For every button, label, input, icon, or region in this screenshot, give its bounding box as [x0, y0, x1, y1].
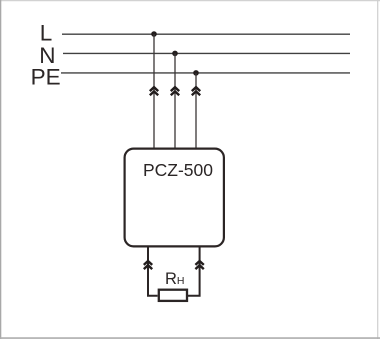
svg-text:PCZ-500: PCZ-500	[143, 160, 213, 180]
svg-text:PE: PE	[31, 64, 61, 89]
wire PE line	[61, 72, 350, 74]
wire box to resistor right	[188, 247, 200, 296]
frame border	[0, 0, 380, 2]
wire PE to box	[195, 73, 197, 148]
junction dot on L	[151, 31, 157, 37]
svg-text:L: L	[40, 20, 53, 45]
wire N to box	[174, 53, 176, 148]
wire L line	[62, 33, 350, 35]
wire box to resistor left	[148, 247, 158, 296]
arrow chevrons on N wire	[171, 87, 179, 95]
relay box PCZ-500	[125, 149, 224, 247]
arrow chevrons on L wire	[150, 87, 158, 95]
junction dot on PE	[193, 70, 199, 76]
arrow chevrons on PE wire	[192, 87, 200, 95]
resistor RH body	[159, 290, 187, 301]
arrow chevrons on left output wire	[144, 261, 152, 269]
wire L to box	[153, 34, 155, 148]
junction dot on N	[172, 51, 178, 57]
arrow chevrons on right output wire	[195, 261, 203, 269]
wire N line	[63, 52, 350, 54]
